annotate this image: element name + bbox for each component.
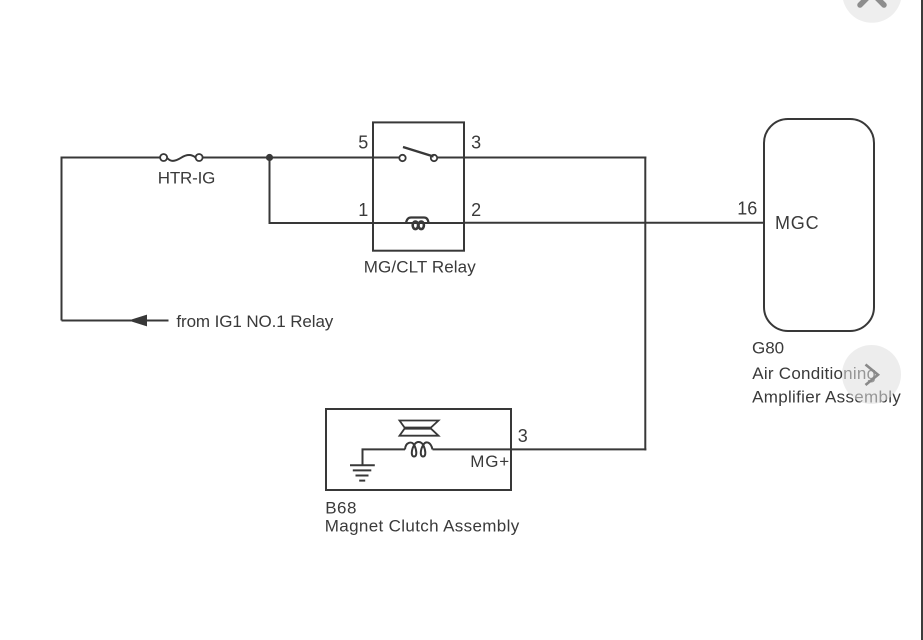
node: junction dot on top wire [266, 154, 273, 161]
svg-text:MG/CLT Relay: MG/CLT Relay [364, 257, 476, 276]
close button X glyph [860, 0, 884, 5]
wire: relay pin 3 to down-column [464, 157, 646, 159]
UI next button (right middle) [842, 345, 901, 404]
svg-text:3: 3 [518, 426, 528, 446]
wire: relay pin 2 to G80 pin 16 [464, 222, 764, 224]
svg-text:from IG1 NO.1 Relay: from IG1 NO.1 Relay [176, 312, 333, 331]
svg-text:MGC: MGC [775, 213, 819, 233]
wire: top horizontal from left column to fuse [61, 157, 161, 159]
svg-text:16: 16 [737, 199, 757, 219]
wire: arrow row from left column [62, 320, 132, 322]
svg-text:MG+: MG+ [470, 452, 510, 471]
wire: junction down then right to relay pin 1 [270, 158, 374, 224]
svg-text:5: 5 [358, 133, 368, 153]
svg-text:G80: G80 [752, 339, 784, 358]
clutch coil L2 [405, 442, 433, 456]
fuse HTR-IG (circle-squiggle-circle) [160, 154, 203, 161]
right viewport border line [921, 0, 923, 640]
wire: switch right contact to relay right edge [437, 157, 464, 159]
connector G80 rounded box (Air Conditioning Amplifier Assembly) [764, 119, 874, 331]
arrowhead pointing left (from IG1 NO.1 Relay) [130, 315, 147, 325]
wire: left vertical feed from top wire down to arrow row [61, 158, 63, 321]
switch contact S1 (relay armature) [399, 147, 437, 161]
wire: ground stem to coil [362, 448, 406, 450]
component B68 box Magnet Clutch Assembly [326, 409, 511, 490]
UI close button (top right, clipped) [842, 0, 902, 23]
svg-text:1: 1 [358, 200, 368, 220]
wire: fuse to relay pin 5 [203, 157, 373, 159]
wire: relay internal stub to switch left contact [373, 157, 400, 159]
ground symbol [350, 449, 375, 480]
wire: vertical column down to magnet clutch wire [644, 157, 646, 451]
next button chevron glyph [866, 365, 879, 386]
wire: coil to column x645 [433, 448, 647, 450]
svg-text:HTR-IG: HTR-IG [158, 169, 215, 188]
pulley symbol bottom trapezoid [400, 429, 439, 436]
svg-text:2: 2 [471, 200, 481, 220]
svg-text:3: 3 [471, 133, 481, 153]
relay K1 box MG/CLT Relay [373, 122, 464, 250]
svg-text:Magnet Clutch Assembly: Magnet Clutch Assembly [325, 516, 520, 535]
relay coil L1 [406, 218, 429, 230]
wire: arrow tail stub [147, 320, 169, 322]
svg-text:B68: B68 [325, 499, 357, 518]
pulley symbol (magnet clutch rotor) top trapezoid [400, 421, 439, 428]
wire: relay internal stub to coil [373, 222, 464, 224]
